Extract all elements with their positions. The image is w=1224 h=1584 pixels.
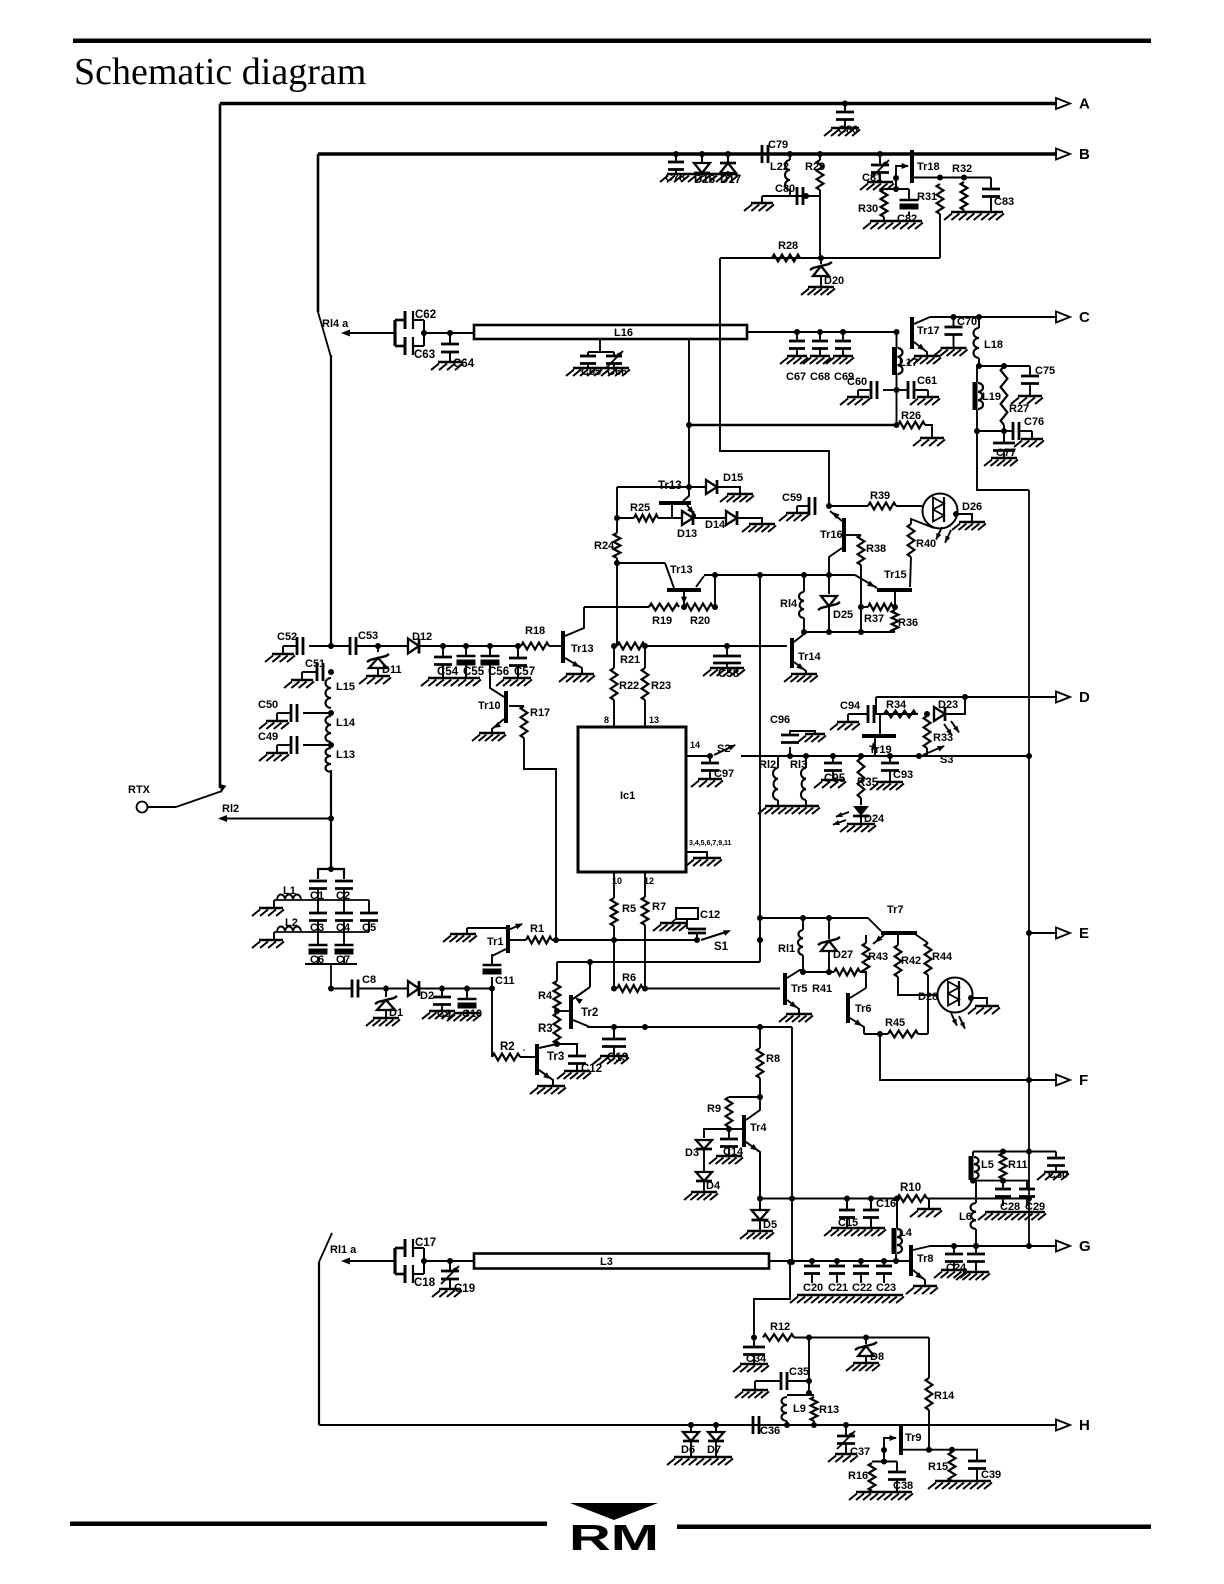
ground for C93 (877, 781, 903, 784)
capacitor C30 (1055, 1152, 1057, 1159)
node L19 bottom rail (977, 430, 1004, 432)
capacitor C1 (309, 880, 327, 883)
svg-text:R14: R14 (934, 1390, 955, 1402)
capacitor C59 (797, 505, 809, 507)
capacitor C16 (870, 1199, 872, 1211)
ground for R32 C83 shared (951, 211, 1003, 214)
svg-text:C16: C16 (876, 1198, 896, 1210)
wire left bus below Rl1a to H corner (318, 1262, 320, 1425)
wire R41 to Tr6 (860, 972, 866, 988)
svg-text:L15: L15 (336, 681, 355, 693)
capacitor C86 (842, 101, 848, 107)
svg-text:3,4,5,6,7,9,11: 3,4,5,6,7,9,11 (689, 840, 732, 847)
capacitor C77 (1003, 431, 1005, 443)
wire IC pin 10 column (613, 872, 615, 898)
capacitor C57 (490, 645, 518, 647)
wire R21 to Tr14 base (645, 645, 787, 647)
node R7 column end (642, 1024, 648, 1030)
relay contact Rl1 a blade (319, 1233, 332, 1262)
wire D23 to D line (945, 697, 965, 714)
ground for C60 (847, 396, 869, 399)
capacitor C10 (464, 986, 470, 992)
resistor R8 (757, 1048, 764, 1078)
svg-text:Rl4: Rl4 (780, 598, 798, 610)
wire C94 to D line corner (874, 713, 918, 715)
inductor L13 (326, 748, 332, 772)
relay coil Rl3 (803, 753, 809, 759)
svg-text:L17: L17 (899, 357, 918, 369)
LED D23 (924, 711, 930, 717)
svg-text:R23: R23 (651, 680, 671, 692)
ground for C65 C66 (573, 367, 629, 370)
capacitor C50 (303, 712, 331, 714)
Tr18 source (914, 177, 940, 179)
svg-text:C2: C2 (336, 890, 350, 902)
svg-text:8: 8 (604, 715, 609, 725)
resistor R44 (915, 934, 928, 943)
node C59 (826, 503, 832, 509)
svg-text:C4: C4 (336, 922, 351, 934)
capacitor C9 (439, 986, 445, 992)
ground for Tr1 base (450, 933, 476, 936)
svg-text:12: 12 (644, 876, 654, 886)
svg-text:R21: R21 (620, 654, 640, 666)
wire L19 row to right bus (977, 431, 1029, 490)
capacitor C83 (964, 177, 991, 179)
wire net D line (876, 696, 1057, 698)
ground for C49 (266, 752, 288, 755)
transistor Tr13 driver (549, 645, 561, 647)
wire Rl2 line with left arrow (218, 815, 227, 822)
switch S1 (701, 931, 729, 940)
svg-text:C: C (1079, 309, 1090, 326)
LED D26 (923, 494, 958, 529)
svg-text:Tr10: Tr10 (478, 700, 501, 712)
resistor R1 (526, 937, 552, 944)
Tr6 collector (850, 988, 866, 998)
capacitor C3 (317, 900, 319, 913)
Tr4 collector (746, 1097, 760, 1120)
resistor R29 (817, 151, 823, 157)
LED D28 arrows (951, 1013, 957, 1026)
resistor R14 (926, 1378, 933, 1410)
wire C10 to C11 node (467, 988, 492, 990)
svg-text:C77: C77 (996, 447, 1016, 459)
diode D5 (759, 1199, 761, 1210)
wire L5 rail (973, 1151, 1056, 1153)
wire C17 pair to L3 (424, 1260, 474, 1262)
transistor Tr16 (842, 518, 846, 552)
transistor Tr9 mosfet (899, 1425, 903, 1455)
transistor Tr8 (909, 1245, 913, 1276)
relay coil Rl2b (777, 756, 779, 768)
svg-text:C64: C64 (453, 358, 475, 370)
switch S3 (926, 748, 928, 756)
net B output arrow (1056, 149, 1070, 160)
wire Tr3 C12 node (554, 1041, 560, 1047)
svg-text:C70: C70 (957, 316, 977, 328)
wire R21 line (611, 643, 617, 649)
svg-text:R9: R9 (707, 1103, 721, 1115)
ground for C50 (266, 720, 288, 723)
svg-text:C78: C78 (665, 172, 685, 184)
inductor L15 (326, 678, 332, 708)
svg-text:C7: C7 (336, 954, 350, 966)
inductor L1 (277, 895, 301, 901)
svg-text:R7: R7 (652, 901, 666, 913)
wire R25 line (617, 517, 634, 519)
capacitor C15 (846, 1199, 848, 1211)
capacitor C7 (343, 932, 345, 945)
resistor R37 (861, 606, 868, 608)
wire D8 line corner to R14 (928, 1338, 930, 1379)
wire R44 bottom to R45 (927, 975, 929, 1034)
resistor R6 (611, 986, 617, 992)
svg-text:C76: C76 (1024, 416, 1044, 428)
wire L3 to Tr8 (769, 1260, 909, 1262)
resistor R38 (858, 535, 865, 565)
svg-text:R25: R25 (630, 502, 650, 514)
svg-text:13: 13 (649, 715, 659, 725)
svg-text:R40: R40 (916, 538, 936, 550)
inductor L14 (325, 716, 331, 742)
svg-text:L18: L18 (984, 339, 1003, 351)
inductor L9 and resistor R13 pair (787, 1394, 814, 1396)
svg-text:E: E (1079, 925, 1089, 942)
Tr4 emitter (746, 1142, 760, 1199)
svg-text:L9: L9 (793, 1403, 806, 1415)
ground for L2 (273, 932, 275, 940)
ground for C28 C29 (985, 1211, 1045, 1214)
wire net B horizontal bus (318, 152, 1057, 156)
svg-text:C6: C6 (310, 954, 324, 966)
resistor R18 (518, 645, 521, 647)
diode D2 (408, 981, 419, 996)
svg-text:C22: C22 (852, 1282, 872, 1294)
svg-text:R1: R1 (530, 923, 544, 935)
wire antenna bus Rl4a to Rl1a (330, 355, 332, 646)
Tr16 collector (829, 548, 842, 575)
wire x792 column (791, 1027, 793, 1262)
ground for C52 (272, 653, 294, 656)
resistor R28 (772, 255, 800, 262)
svg-text:L3: L3 (600, 1256, 613, 1268)
svg-text:C86: C86 (838, 124, 858, 136)
wire IC pin14 to S2 (686, 755, 710, 757)
svg-text:R4: R4 (538, 990, 553, 1002)
Tr8 collector (913, 1246, 930, 1250)
ground for R10 (928, 1199, 930, 1210)
ground for D15 (717, 487, 740, 494)
wire source to R32 (940, 177, 964, 179)
wire D3 branch (704, 1129, 729, 1138)
diode D1 (383, 986, 389, 992)
svg-text:Tr13: Tr13 (670, 564, 693, 576)
page bottom rule right (677, 1525, 1151, 1530)
wire R28 left end down to C59 (720, 258, 829, 506)
svg-text:C5: C5 (362, 922, 376, 934)
node antenna bus to filter bracket (328, 866, 334, 872)
capacitor C24 b (973, 1243, 979, 1249)
wire IC pin 12 column (644, 872, 646, 897)
node C12 S1 (694, 937, 700, 943)
ground for C95 (821, 779, 845, 782)
wire Tr13 top line (617, 486, 689, 488)
capacitor C58 (724, 643, 730, 649)
svg-text:H: H (1079, 1417, 1090, 1434)
capacitor C80 (805, 195, 807, 197)
resistor R31 (937, 184, 944, 214)
ground for C68 (810, 355, 830, 358)
wire mid bus (704, 574, 855, 576)
svg-text:C21: C21 (828, 1282, 848, 1294)
svg-text:L5: L5 (981, 1159, 994, 1171)
IC Ic1 box (578, 727, 686, 872)
svg-text:C23: C23 (876, 1282, 896, 1294)
capacitor C4 (343, 900, 345, 913)
capacitor C94 (848, 713, 868, 715)
svg-text:Tr13: Tr13 (658, 480, 682, 492)
inductor L2 (277, 927, 301, 933)
ground for C24 a (941, 1269, 967, 1272)
ground for C64 (438, 361, 462, 364)
resistor R45 (888, 1031, 918, 1038)
resistor R32 (961, 182, 968, 210)
svg-text:R44: R44 (932, 951, 953, 963)
ground for D24 (847, 823, 875, 826)
ground for C10 (454, 1012, 480, 1015)
svg-text:D: D (1079, 689, 1090, 706)
svg-text:Tr13: Tr13 (571, 643, 594, 655)
wire top rail y918 (760, 917, 868, 919)
capacitor C34 (753, 1338, 755, 1348)
svg-text:10: 10 (612, 876, 622, 886)
ground for C51 (291, 679, 313, 682)
capacitor C24 a (951, 1243, 957, 1249)
svg-text:R6: R6 (622, 972, 636, 984)
svg-text:C80: C80 (775, 183, 795, 195)
svg-text:R28: R28 (778, 240, 798, 252)
relay coil Rl4 (801, 572, 807, 578)
svg-text:C83: C83 (994, 196, 1014, 208)
wire L5 bottom rail (973, 1180, 1029, 1182)
wire R20 to bus riser (712, 604, 718, 610)
svg-text:C30: C30 (1048, 1169, 1068, 1181)
wire L4 to L3 line (895, 1254, 897, 1261)
svg-text:C14: C14 (723, 1146, 744, 1158)
ground for Tr8 (913, 1285, 937, 1288)
svg-text:R34: R34 (886, 699, 907, 711)
diode D24 with arrows (860, 798, 862, 805)
svg-text:C68: C68 (810, 371, 830, 383)
resistor R5 (611, 898, 618, 926)
zener D25 (826, 572, 832, 578)
svg-text:R17: R17 (530, 707, 550, 719)
svg-text:C60: C60 (847, 376, 867, 388)
svg-text:R30: R30 (858, 203, 878, 215)
Tr13 driver emitter (565, 658, 582, 674)
wire D1 node to D2 (386, 988, 408, 990)
capacitor C62 / C63 parallel pair (393, 320, 396, 346)
node C8 row (328, 986, 334, 992)
capacitor C82 (908, 189, 910, 200)
Tr1 emitter (492, 949, 506, 956)
Tr10 emitter (492, 719, 504, 733)
inductor L18 (976, 314, 982, 320)
svg-text:L2: L2 (285, 917, 298, 929)
transistor Tr10 (504, 691, 508, 723)
svg-text:R43: R43 (868, 951, 888, 963)
ground for Tr10 (479, 732, 505, 735)
svg-text:R42: R42 (901, 955, 921, 967)
svg-text:Rl1: Rl1 (778, 943, 795, 955)
svg-text:Tr18: Tr18 (917, 161, 940, 173)
svg-text:C54: C54 (437, 666, 459, 678)
capacitor C52 (309, 645, 331, 647)
wire Tr2 emitter line y1027 (587, 1026, 792, 1028)
capacitor C56 (466, 645, 490, 647)
svg-text:S1: S1 (714, 941, 729, 953)
svg-text:Rl2: Rl2 (222, 803, 239, 815)
ground for Tr14 (791, 673, 817, 676)
Tr5 emitter (787, 1000, 799, 1014)
svg-text:D2: D2 (420, 990, 434, 1002)
ground for C34 (740, 1363, 768, 1366)
ground for R26 (925, 425, 932, 438)
svg-text:D20: D20 (824, 275, 844, 287)
svg-text:C28: C28 (1000, 1201, 1020, 1213)
transistor Tr7 (881, 931, 917, 935)
resistor R36 (892, 604, 898, 610)
resistor R41 (834, 969, 860, 976)
svg-text:D1: D1 (389, 1007, 403, 1019)
svg-text:C57: C57 (514, 666, 535, 678)
capacitor C38 (896, 1462, 898, 1473)
trimmer C12 (676, 908, 698, 919)
wire C9 to C10 (442, 988, 467, 990)
diode D16 (699, 151, 705, 157)
ground for D14 (737, 518, 762, 524)
ground for C20-C23 (797, 1294, 903, 1297)
right vertical bus (1028, 490, 1030, 1246)
svg-text:L6: L6 (959, 1211, 972, 1223)
Tr14 emitter (794, 662, 806, 674)
resistor R26 (898, 422, 925, 429)
wire D26 to ground (953, 511, 959, 517)
wire y962 to Tr2 emitter (589, 962, 591, 987)
resistor R35 (858, 753, 864, 759)
ground for C81 (867, 181, 893, 184)
svg-text:R15: R15 (928, 1461, 948, 1473)
svg-text:Tr5: Tr5 (791, 983, 808, 995)
diode D17 (725, 151, 731, 157)
capacitor C53 (349, 637, 352, 655)
wire filter rail 1 (274, 899, 369, 901)
ground for Tr13 driver emitter (566, 673, 594, 676)
svg-text:R37: R37 (864, 613, 884, 625)
wire RTX to switch blade (148, 806, 177, 808)
Tr2 collector to y1027 (573, 1020, 590, 1027)
capacitor C76 (1004, 430, 1013, 432)
capacitor C22 (858, 1258, 864, 1264)
svg-text:R38: R38 (866, 543, 886, 555)
wire R19 R20 line (584, 606, 649, 608)
transistor Tr14 (790, 638, 794, 668)
svg-text:C65: C65 (581, 366, 601, 378)
wire left vertical bus from B line to relay Rl4a (317, 154, 320, 312)
capacitor C81 variable (877, 151, 883, 157)
svg-text:RTX: RTX (128, 784, 151, 796)
net E output arrow (1056, 928, 1070, 939)
svg-text:C79: C79 (768, 139, 788, 151)
svg-text:G: G (1079, 1238, 1091, 1255)
Tr6 emitter (850, 1018, 864, 1034)
ground for D26 (959, 521, 985, 524)
svg-text:C15: C15 (838, 1217, 858, 1229)
svg-text:R29: R29 (805, 161, 825, 173)
resistor R10 (897, 1195, 927, 1202)
capacitor C61 (897, 389, 909, 391)
wire R9 branch (729, 1096, 760, 1098)
svg-text:C34: C34 (746, 1353, 767, 1365)
wire R42 bottom to D28 (898, 977, 937, 995)
wire net A horizontal bus (220, 102, 1057, 106)
wire R26 line (689, 424, 898, 427)
ground for C97 (698, 778, 722, 781)
svg-text:Tr2: Tr2 (581, 1007, 598, 1019)
resistor R9 (726, 1097, 733, 1127)
inductor L22 (787, 151, 793, 157)
LED D26 arrows (936, 527, 942, 540)
RM logo triangle (570, 1503, 658, 1520)
svg-text:R39: R39 (870, 490, 890, 502)
net A output arrow (1056, 98, 1070, 109)
capacitor C93 (887, 753, 893, 759)
svg-text:C1: C1 (310, 890, 324, 902)
Tr8 emitter (913, 1270, 925, 1286)
wire R12 to D8 corner (794, 1337, 929, 1339)
svg-text:R3: R3 (538, 1023, 553, 1035)
wire R4 node to Tr2 base (557, 1010, 569, 1012)
svg-text:C18: C18 (414, 1277, 436, 1289)
svg-text:C62: C62 (415, 309, 436, 321)
svg-text:C82: C82 (897, 213, 917, 225)
svg-text:A: A (1079, 96, 1090, 113)
wire R28 line (720, 257, 940, 259)
svg-text:D23: D23 (938, 699, 958, 711)
resistor R27 (1001, 366, 1008, 425)
ground for D1 (373, 1017, 399, 1020)
svg-text:Tr16: Tr16 (820, 529, 843, 541)
svg-text:C17: C17 (415, 1237, 436, 1249)
svg-text:Tr4: Tr4 (750, 1122, 767, 1134)
net F output arrow (1056, 1075, 1070, 1086)
resistor R25 (634, 515, 658, 522)
svg-text:D8: D8 (870, 1351, 884, 1363)
resistor R20 (681, 604, 687, 610)
wire R24 node down pin8 column (616, 563, 618, 646)
svg-text:R32: R32 (952, 163, 972, 175)
wire R31 to R28 line (939, 214, 941, 258)
svg-text:C35: C35 (789, 1366, 809, 1378)
wire left vertical bus from A line to RTX switch (219, 104, 222, 789)
diode D4 (703, 1149, 705, 1172)
capacitor C75 (1029, 366, 1031, 376)
svg-text:C51: C51 (305, 658, 325, 670)
svg-text:D14: D14 (705, 519, 726, 531)
svg-text:L1: L1 (283, 885, 296, 897)
ground for C96 (805, 733, 825, 736)
